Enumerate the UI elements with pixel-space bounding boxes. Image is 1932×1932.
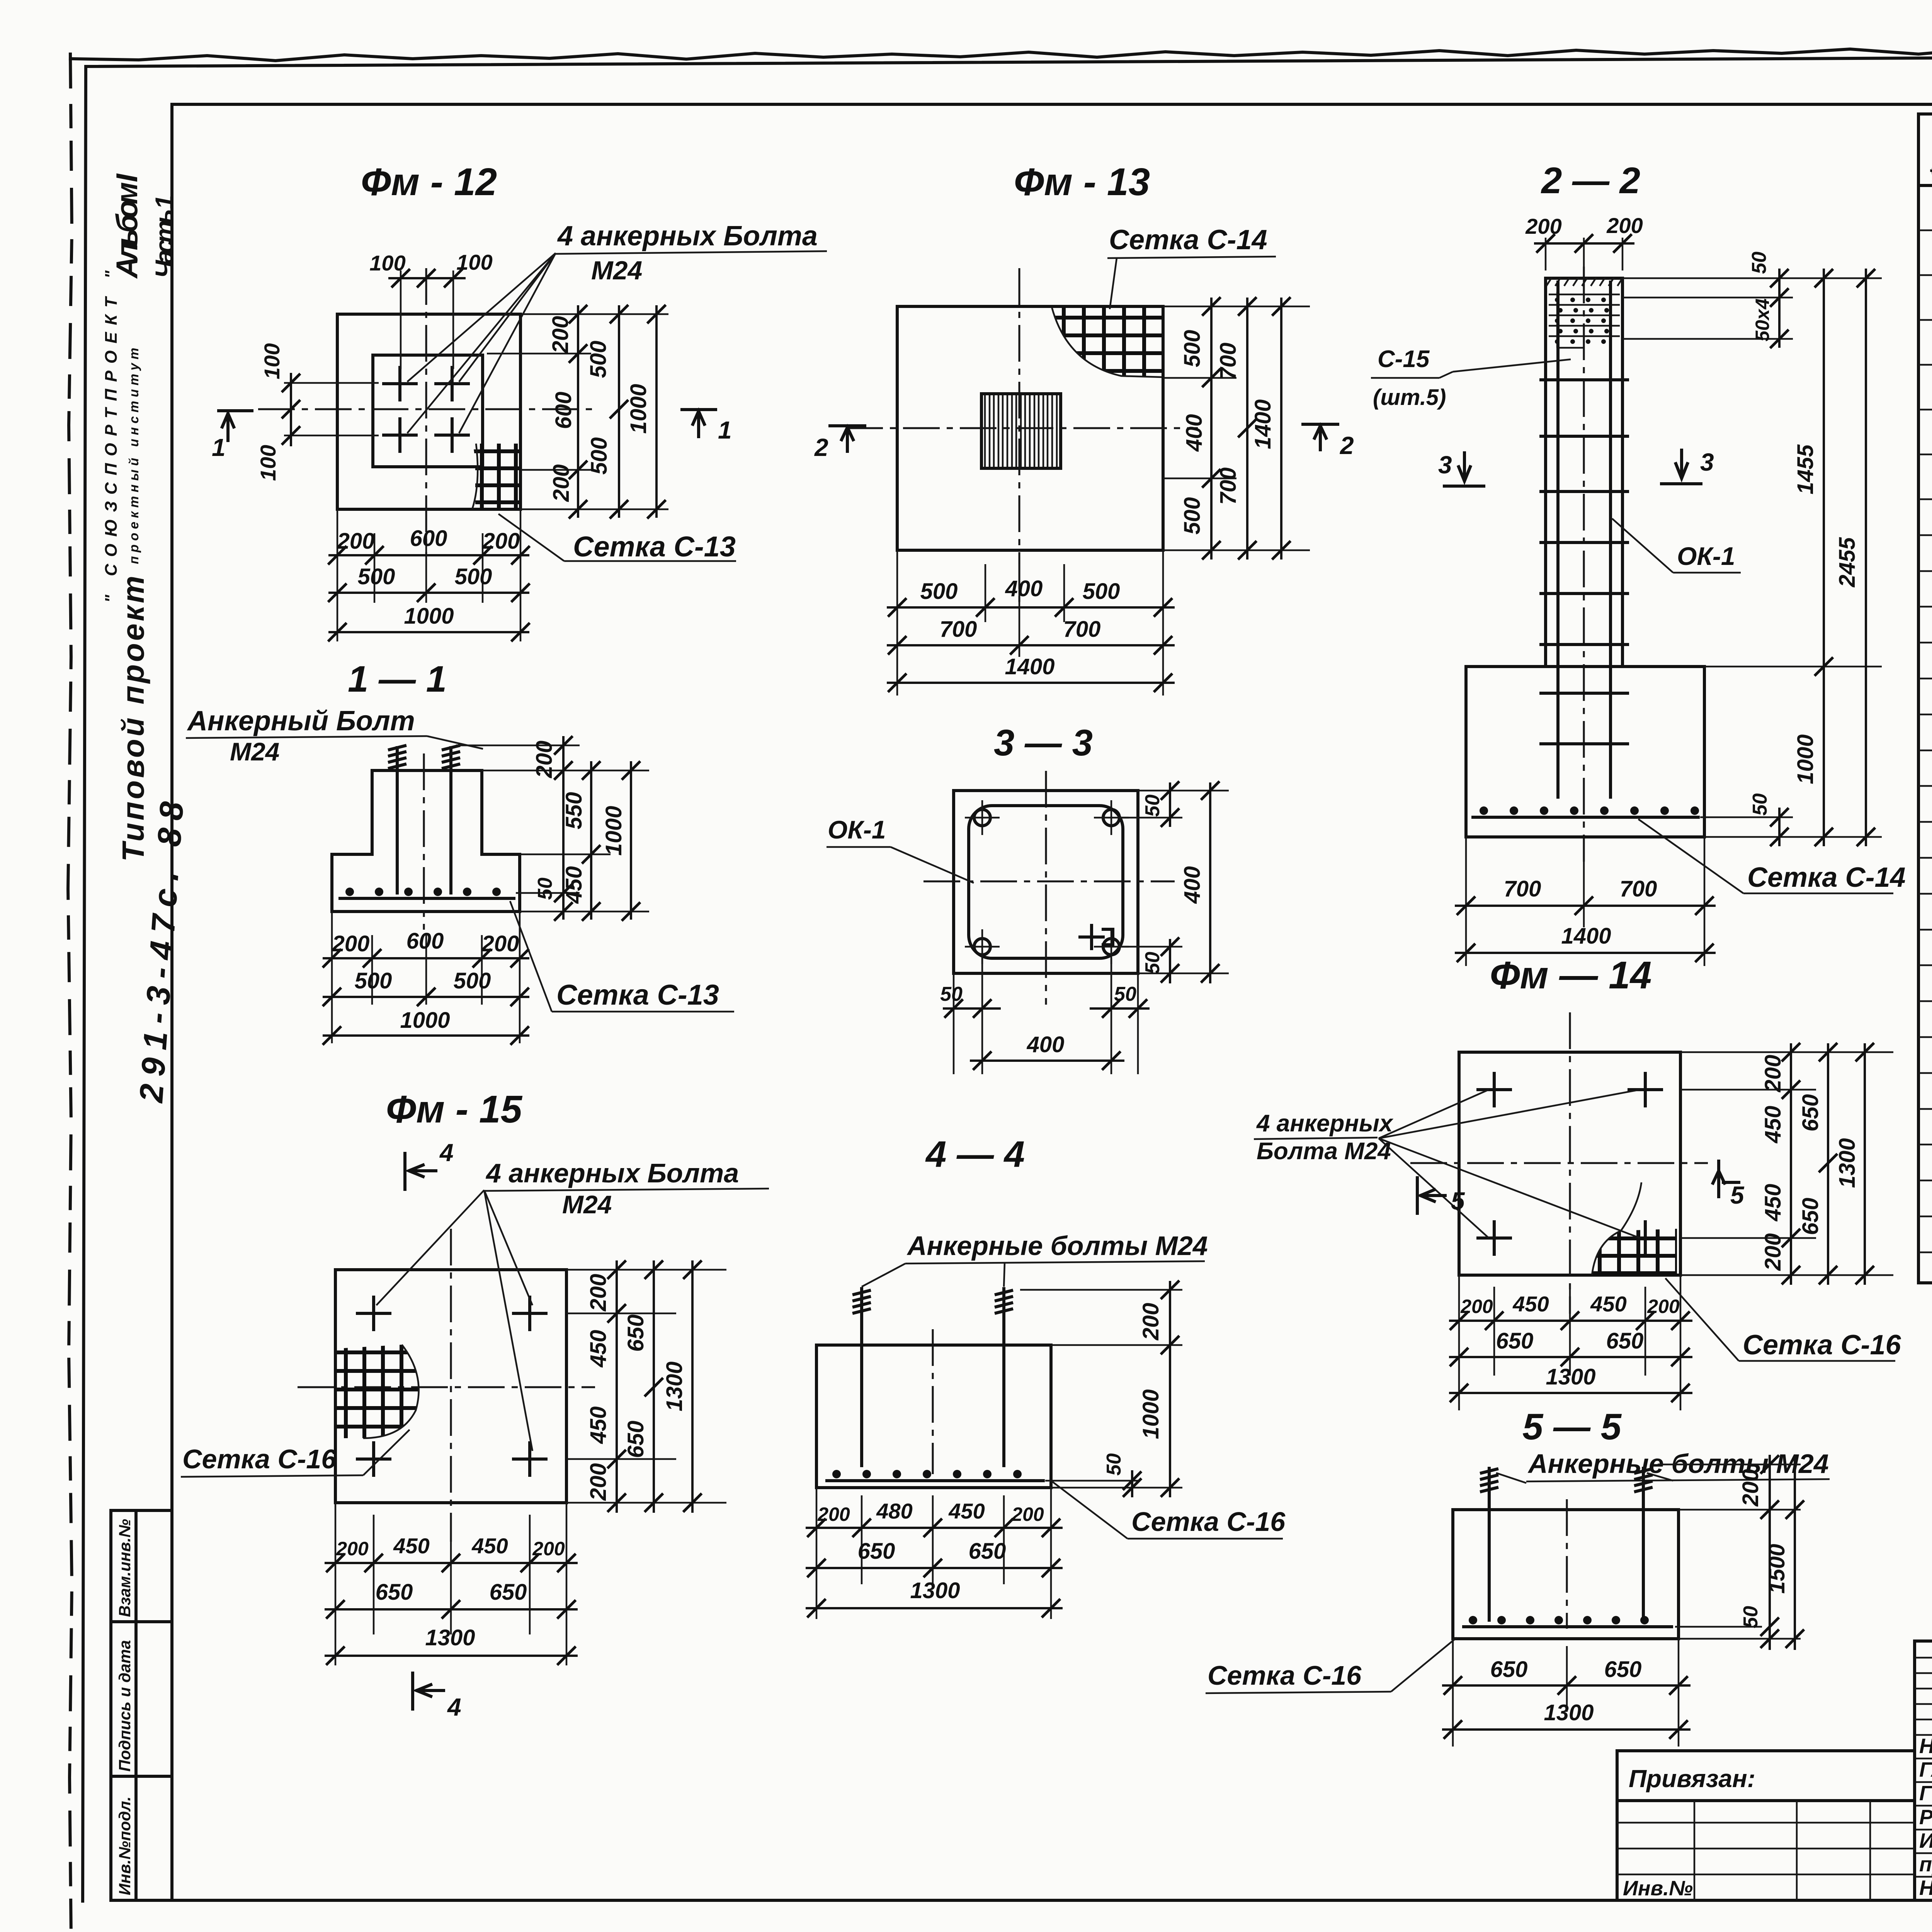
svg-text:100: 100 bbox=[456, 250, 492, 274]
svg-text:провер.: провер. bbox=[1919, 1853, 1932, 1876]
svg-text:50: 50 bbox=[1740, 1606, 1762, 1628]
svg-text:100: 100 bbox=[256, 445, 280, 481]
svg-text:200: 200 bbox=[481, 931, 519, 956]
svg-text:1000: 1000 bbox=[404, 604, 454, 629]
parts table row lines bbox=[1918, 230, 1932, 231]
svg-text:650: 650 bbox=[623, 1315, 648, 1352]
4-4 right dims bbox=[1020, 1289, 1182, 1291]
leader fan to bolts bbox=[407, 253, 556, 382]
svg-text:100: 100 bbox=[260, 343, 284, 379]
1-1 right dims bbox=[456, 745, 580, 747]
3-3 bottom dims bbox=[953, 973, 955, 1074]
svg-text:450: 450 bbox=[1512, 1292, 1549, 1316]
svg-text:2455: 2455 bbox=[1835, 537, 1860, 588]
svg-text:450: 450 bbox=[1760, 1184, 1786, 1222]
svg-text:Рук.ер.: Рук.ер. bbox=[1919, 1806, 1932, 1829]
svg-text:550: 550 bbox=[561, 792, 587, 830]
Fm-15 bottom dims bbox=[335, 1503, 337, 1665]
svg-text:200: 200 bbox=[1738, 1469, 1763, 1507]
2-2 column bbox=[1546, 278, 1622, 667]
svg-text:50: 50 bbox=[1141, 794, 1164, 817]
svg-text:650: 650 bbox=[969, 1539, 1006, 1564]
Fm-12 anchor bolt crosses bbox=[384, 382, 416, 385]
svg-text:1000: 1000 bbox=[1138, 1389, 1163, 1439]
svg-text:3 — 3: 3 — 3 bbox=[994, 722, 1093, 764]
svg-text:1: 1 bbox=[718, 416, 732, 444]
svg-text:500: 500 bbox=[358, 564, 395, 589]
Fm-15 section marks 4 bbox=[403, 1153, 406, 1189]
svg-text:50: 50 bbox=[1103, 1453, 1125, 1476]
privyazan box bbox=[1617, 1751, 1915, 1900]
svg-text:650: 650 bbox=[1490, 1657, 1528, 1682]
5-5 mesh with dots bbox=[1464, 1625, 1672, 1628]
svg-text:450: 450 bbox=[561, 866, 587, 904]
svg-text:200: 200 bbox=[1760, 1233, 1786, 1271]
3-3 centerlines bbox=[1045, 771, 1047, 1005]
svg-text:1000: 1000 bbox=[1793, 734, 1818, 784]
svg-text:650: 650 bbox=[376, 1580, 413, 1605]
svg-text:200: 200 bbox=[1647, 1296, 1680, 1317]
Fm-13 right dim chain bbox=[1163, 306, 1310, 308]
Fm-12 inner square bbox=[373, 355, 483, 467]
2-2 hatched top cap bbox=[1546, 277, 1623, 286]
1-1 centerline bbox=[423, 753, 425, 930]
svg-text:1300: 1300 bbox=[910, 1578, 960, 1603]
svg-text:200: 200 bbox=[586, 1274, 611, 1312]
1-1 bottom dims bbox=[331, 912, 333, 1043]
svg-text:500: 500 bbox=[355, 968, 392, 993]
4-4 anchor bolts bbox=[860, 1289, 863, 1466]
svg-text:М24: М24 bbox=[591, 256, 642, 285]
svg-text:700: 700 bbox=[940, 617, 977, 642]
svg-text:650: 650 bbox=[490, 1580, 527, 1605]
svg-text:500: 500 bbox=[586, 341, 611, 378]
torn paper edge left bbox=[68, 54, 72, 1932]
svg-text:Сетка С-16: Сетка С-16 bbox=[182, 1444, 337, 1474]
3-3 small tie mark bbox=[1080, 925, 1113, 949]
svg-text:Сетка С-13: Сетка С-13 bbox=[556, 979, 719, 1011]
svg-text:50: 50 bbox=[1114, 983, 1136, 1005]
Fm-12 section marks 1 bbox=[219, 409, 252, 412]
svg-text:650: 650 bbox=[1798, 1094, 1823, 1132]
Fm-14 bottom dims bbox=[1458, 1275, 1460, 1410]
svg-text:4: 4 bbox=[447, 1693, 461, 1721]
Fm-14 outer square bbox=[1459, 1052, 1680, 1275]
svg-text:600: 600 bbox=[410, 526, 447, 551]
svg-text:200: 200 bbox=[1460, 1296, 1493, 1317]
Fm-15 centerlines bbox=[450, 1229, 452, 1542]
svg-text:500: 500 bbox=[587, 437, 612, 475]
svg-text:5: 5 bbox=[1451, 1187, 1465, 1215]
torn paper edge top wavy bbox=[70, 45, 1932, 61]
svg-text:Сетка С-16: Сетка С-16 bbox=[1743, 1330, 1901, 1361]
svg-text:700: 700 bbox=[1504, 876, 1541, 901]
svg-text:Типовой проект: Типовой проект bbox=[116, 576, 150, 862]
3-3 corner bars bbox=[974, 810, 990, 826]
2-2 footing bbox=[1466, 667, 1704, 837]
svg-text:1300: 1300 bbox=[662, 1361, 687, 1411]
svg-text:Анкерный Болт: Анкерный Болт bbox=[187, 706, 415, 736]
svg-text:650: 650 bbox=[1606, 1328, 1644, 1354]
svg-text:ГАП: ГАП bbox=[1919, 1758, 1932, 1781]
svg-text:400: 400 bbox=[1180, 866, 1205, 904]
svg-text:5 — 5: 5 — 5 bbox=[1522, 1406, 1622, 1447]
Fm-13 section marks 2 bbox=[830, 424, 865, 427]
privyazan grid bbox=[1617, 1822, 1915, 1824]
svg-text:Н.контр: Н.контр bbox=[1919, 1876, 1932, 1900]
svg-text:650: 650 bbox=[1604, 1657, 1642, 1682]
svg-text:500: 500 bbox=[455, 564, 492, 589]
svg-text:400: 400 bbox=[1027, 1032, 1065, 1057]
svg-text:3: 3 bbox=[1700, 448, 1714, 476]
svg-text:2: 2 bbox=[814, 434, 828, 461]
svg-text:ОК-1: ОК-1 bbox=[1677, 542, 1735, 570]
svg-text:1300: 1300 bbox=[425, 1625, 475, 1650]
svg-text:4 — 4: 4 — 4 bbox=[925, 1134, 1025, 1175]
svg-text:2: 2 bbox=[1340, 432, 1354, 459]
3-3 reinforcement hoop bbox=[969, 806, 1123, 958]
svg-text:700: 700 bbox=[1620, 876, 1657, 901]
Fm-14 centerlines bbox=[1569, 1012, 1571, 1314]
svg-text:50: 50 bbox=[1141, 952, 1164, 974]
svg-text:200: 200 bbox=[336, 1538, 369, 1560]
svg-text:Анкерные болты М24: Анкерные болты М24 bbox=[906, 1231, 1208, 1261]
5-5 footing bbox=[1453, 1510, 1679, 1639]
svg-text:50х4: 50х4 bbox=[1752, 298, 1773, 341]
svg-text:1400: 1400 bbox=[1250, 399, 1276, 449]
svg-text:700: 700 bbox=[1216, 468, 1241, 505]
svg-text:Инв.№подл.: Инв.№подл. bbox=[116, 1796, 134, 1895]
svg-text:М24: М24 bbox=[230, 737, 279, 766]
Fm-12 top dim 100/100 bbox=[400, 270, 402, 369]
svg-text:ОК-1: ОК-1 bbox=[828, 815, 886, 844]
svg-text:Фм - 15: Фм - 15 bbox=[386, 1088, 523, 1131]
5-5 right dims bbox=[1658, 1464, 1801, 1466]
2-2 mesh line with dots bbox=[1473, 816, 1698, 819]
svg-text:Часть 1: Часть 1 bbox=[150, 195, 179, 278]
svg-text:Инв.№: Инв.№ bbox=[1623, 1877, 1693, 1900]
svg-text:200: 200 bbox=[1760, 1055, 1786, 1093]
svg-text:400: 400 bbox=[1005, 576, 1043, 601]
svg-text:1300: 1300 bbox=[1544, 1700, 1594, 1725]
svg-text:4 анкерных Болта: 4 анкерных Болта bbox=[485, 1158, 739, 1188]
svg-text:Нач.мас: Нач.мас bbox=[1919, 1735, 1932, 1758]
svg-text:Привязан:: Привязан: bbox=[1629, 1765, 1755, 1793]
1-1 mesh line with dots bbox=[340, 897, 514, 900]
svg-text:1 — 1: 1 — 1 bbox=[348, 658, 447, 700]
svg-text:1: 1 bbox=[212, 434, 226, 461]
4-4 mesh with dots bbox=[827, 1479, 1043, 1482]
svg-text:(шт.5): (шт.5) bbox=[1373, 385, 1446, 410]
1-1 footing outline bbox=[332, 770, 520, 912]
Fm-12 centerline horizontal bbox=[258, 408, 593, 410]
svg-text:1300: 1300 bbox=[1835, 1138, 1860, 1188]
svg-text:200: 200 bbox=[817, 1503, 850, 1525]
svg-text:1000: 1000 bbox=[601, 806, 626, 855]
svg-text:С-15: С-15 bbox=[1378, 346, 1430, 372]
title block frame bbox=[1915, 1641, 1932, 1900]
svg-text:Сетка С-16: Сетка С-16 bbox=[1207, 1660, 1362, 1690]
Fm-13 outer square bbox=[897, 306, 1163, 550]
svg-text:Фм — 14: Фм — 14 bbox=[1490, 954, 1652, 997]
Fm-15 right dim chains bbox=[566, 1269, 726, 1271]
svg-text:2 — 2: 2 — 2 bbox=[1541, 160, 1640, 201]
svg-text:450: 450 bbox=[586, 1330, 611, 1368]
2-2 top dims 200 200 bbox=[1545, 238, 1547, 270]
parts table header row bbox=[1918, 184, 1932, 187]
2-2 right dim chains bbox=[1622, 277, 1882, 279]
svg-text:500: 500 bbox=[454, 968, 491, 993]
4-4 bottom dims bbox=[816, 1488, 818, 1619]
Fm-12 left dim 100/100 bbox=[284, 382, 379, 384]
svg-text:Сетка С-16: Сетка С-16 bbox=[1131, 1507, 1286, 1537]
svg-text:400: 400 bbox=[1182, 414, 1207, 452]
svg-text:450: 450 bbox=[1590, 1292, 1626, 1316]
svg-text:М24: М24 bbox=[562, 1190, 612, 1219]
svg-text:200: 200 bbox=[1525, 214, 1561, 238]
Fm-13 centerlines bbox=[1019, 268, 1020, 603]
svg-text:3: 3 bbox=[1438, 451, 1452, 479]
svg-text:50: 50 bbox=[1748, 252, 1770, 274]
paper inner border top bbox=[86, 54, 1932, 66]
Fm-13 bottom dims bbox=[896, 550, 898, 696]
2-2 anchor bolts bbox=[1556, 282, 1560, 797]
svg-text:1400: 1400 bbox=[1561, 923, 1611, 949]
Fm-12 bottom dim chains bbox=[337, 509, 338, 641]
svg-text:450: 450 bbox=[586, 1406, 611, 1444]
svg-text:" СОЮЗСПОРТПРОЕКТ ": " СОЮЗСПОРТПРОЕКТ " bbox=[102, 270, 121, 603]
svg-text:200: 200 bbox=[532, 1538, 565, 1560]
svg-text:600: 600 bbox=[551, 392, 576, 429]
svg-text:1000: 1000 bbox=[626, 384, 651, 434]
svg-text:500: 500 bbox=[1083, 579, 1120, 604]
Fm-14 right dim chains bbox=[1680, 1051, 1893, 1053]
svg-text:450: 450 bbox=[1760, 1106, 1786, 1144]
svg-text:200: 200 bbox=[549, 464, 574, 502]
svg-text:200: 200 bbox=[482, 529, 520, 554]
svg-text:1500: 1500 bbox=[1764, 1544, 1789, 1594]
svg-text:50: 50 bbox=[1749, 793, 1771, 816]
svg-text:4: 4 bbox=[439, 1139, 454, 1167]
svg-text:Сетка С-13: Сетка С-13 bbox=[573, 531, 736, 563]
svg-text:Альбом I: Альбом I bbox=[110, 173, 144, 279]
svg-text:4 анкерных: 4 анкерных bbox=[1256, 1110, 1394, 1137]
svg-text:Фм - 12: Фм - 12 bbox=[361, 160, 497, 204]
5-5 centerline bbox=[1566, 1499, 1568, 1629]
svg-text:Исполн.: Исполн. bbox=[1919, 1829, 1932, 1852]
2-2 C-15 outline box bbox=[1556, 292, 1558, 348]
svg-text:100: 100 bbox=[369, 251, 405, 275]
5-5 bottom dims bbox=[1452, 1639, 1454, 1747]
svg-text:200: 200 bbox=[532, 741, 557, 779]
svg-text:200: 200 bbox=[337, 529, 375, 554]
svg-text:200: 200 bbox=[548, 316, 573, 354]
2-2 ladder rungs bbox=[1541, 378, 1628, 381]
2-2 centerline bbox=[1583, 267, 1585, 862]
Fm-15 outer square bbox=[335, 1270, 566, 1503]
svg-text:200: 200 bbox=[1138, 1303, 1163, 1341]
sidebar stamp boxes bbox=[111, 1510, 172, 1900]
svg-text:1455: 1455 bbox=[1793, 444, 1818, 495]
2-2 mesh zone top (C-15) bbox=[1549, 294, 1620, 296]
svg-text:450: 450 bbox=[393, 1534, 429, 1558]
5-5 anchor bolts bbox=[1488, 1468, 1491, 1620]
Fm-12 right dim chain bbox=[520, 313, 668, 315]
Fm-15 anchor bolt crosses bbox=[357, 1312, 390, 1315]
parts table frame bbox=[1918, 114, 1932, 1283]
Fm-14 section marks 5 bbox=[1416, 1178, 1419, 1213]
3-3 outer square bbox=[954, 791, 1138, 973]
svg-text:600: 600 bbox=[406, 929, 444, 954]
paper inner border left bbox=[83, 66, 86, 1901]
Fm-13 hatched column bbox=[981, 394, 1061, 468]
4-4 centerline bbox=[932, 1329, 934, 1474]
Fm-12 centerline vertical bbox=[425, 268, 427, 554]
svg-text:500: 500 bbox=[1180, 497, 1205, 535]
svg-text:50: 50 bbox=[940, 983, 963, 1005]
svg-text:200: 200 bbox=[586, 1463, 611, 1501]
svg-text:Сетка С-14: Сетка С-14 bbox=[1109, 224, 1267, 255]
Fm-12 outer square bbox=[337, 314, 520, 509]
svg-text:Подпись и дата: Подпись и дата bbox=[116, 1640, 134, 1772]
label С-15 шт.5 leader (2-2) bbox=[1439, 372, 1453, 378]
svg-text:5: 5 bbox=[1730, 1181, 1745, 1209]
title block thin top rows bbox=[1915, 1657, 1932, 1659]
3-3 right dims bbox=[1138, 790, 1229, 792]
svg-text:650: 650 bbox=[1798, 1198, 1823, 1235]
svg-text:ГИП: ГИП bbox=[1919, 1782, 1932, 1805]
4-4 footing bbox=[816, 1345, 1051, 1488]
svg-text:Сетка С-14: Сетка С-14 bbox=[1747, 862, 1906, 893]
svg-text:480: 480 bbox=[876, 1499, 912, 1523]
svg-text:200: 200 bbox=[1606, 213, 1643, 238]
svg-text:500: 500 bbox=[920, 579, 958, 604]
svg-text:1400: 1400 bbox=[1005, 654, 1054, 679]
svg-text:650: 650 bbox=[623, 1421, 648, 1458]
svg-text:Фм - 13: Фм - 13 bbox=[1014, 160, 1150, 204]
svg-text:1000: 1000 bbox=[400, 1008, 450, 1033]
svg-text:450: 450 bbox=[948, 1499, 985, 1523]
svg-text:450: 450 bbox=[471, 1534, 508, 1558]
svg-text:200: 200 bbox=[332, 931, 370, 956]
svg-text:50: 50 bbox=[534, 878, 556, 900]
svg-text:Болта М24: Болта М24 bbox=[1257, 1138, 1391, 1165]
1-1 anchor bolts bbox=[396, 748, 399, 893]
svg-text:1300: 1300 bbox=[1546, 1364, 1595, 1389]
svg-text:4 анкерных Болта: 4 анкерных Болта bbox=[557, 221, 818, 252]
svg-text:650: 650 bbox=[1496, 1328, 1534, 1354]
svg-text:200: 200 bbox=[1011, 1503, 1044, 1525]
svg-text:700: 700 bbox=[1216, 343, 1241, 380]
Fm-14 anchor bolt crosses bbox=[1478, 1088, 1510, 1091]
svg-text:Форм.: Форм. bbox=[1926, 122, 1932, 180]
svg-text:Взам.инв.№: Взам.инв.№ bbox=[116, 1519, 134, 1617]
svg-text:650: 650 bbox=[858, 1539, 895, 1564]
svg-text:700: 700 bbox=[1063, 617, 1101, 642]
2-2 bottom dims bbox=[1465, 837, 1467, 966]
svg-text:500: 500 bbox=[1180, 330, 1205, 367]
